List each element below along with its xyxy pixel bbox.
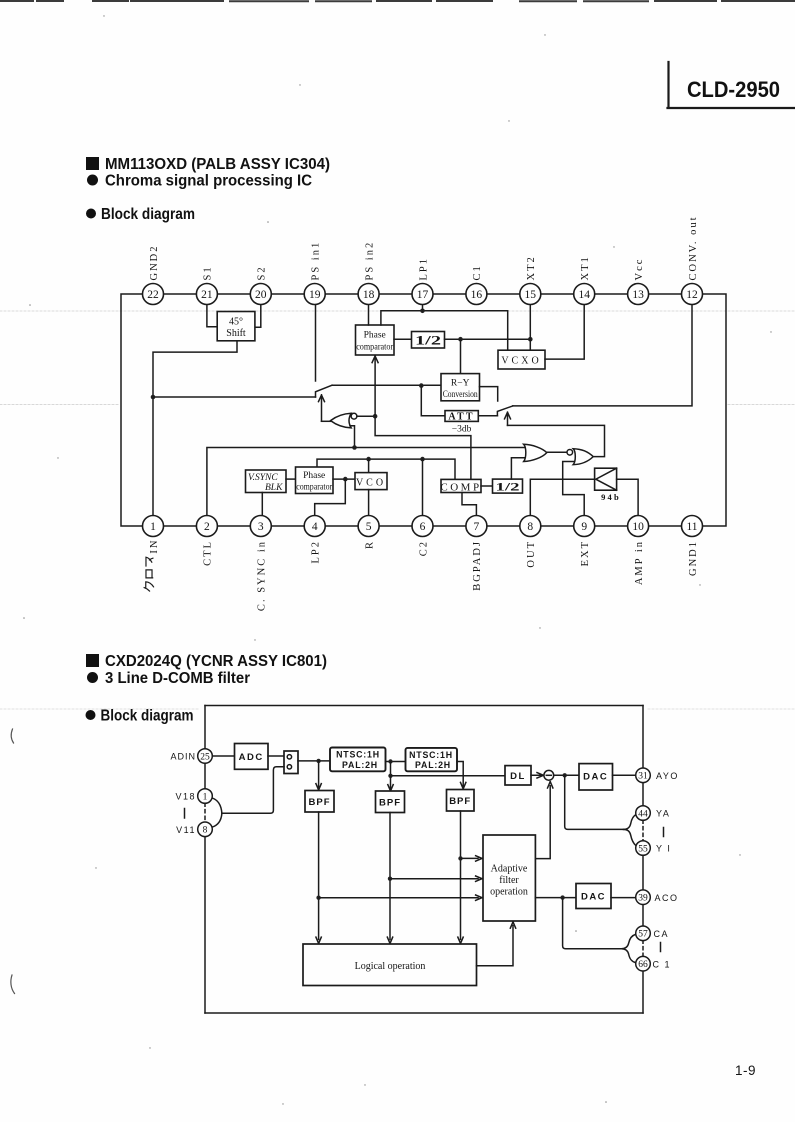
wire V-input to selector [222,767,284,814]
IC801 outline top [205,705,643,707]
pin 6 (C2) [412,516,433,557]
brace hook to pin57 [622,934,636,948]
svg-text:LP2: LP2 [311,540,322,564]
wire K1 arrow to BPF1 [316,761,321,790]
node K4 [563,773,567,777]
left margin paren mark 1 [11,729,13,743]
header round bullet block diagram 2 [86,710,96,720]
wire ATT to SW2 pole [478,415,497,417]
wire K3 arrow to BPF2 [388,776,393,791]
node K6 [388,877,392,881]
svg-text:GND1: GND1 [688,540,699,576]
pin 14 (XT1) [574,255,595,304]
svg-text:CONV. out: CONV. out [688,215,699,280]
wire NTSC2 down to BPF3 [457,762,466,789]
CTL rail pin2 to gate G2 [207,448,525,516]
svg-text:filter: filter [499,875,519,886]
svg-text:comparator: comparator [296,482,332,492]
NOR-input gate G3 [567,449,593,465]
svg-text:1/2: 1/2 [496,482,520,494]
svg-text:Logical operation: Logical operation [355,961,426,972]
svg-text:3 Line D-COMB filter: 3 Line D-COMB filter [105,670,250,687]
wire G1 top input to phase-det riser [357,415,375,417]
svg-text:XT2: XT2 [526,255,537,280]
svg-text:R: R [364,540,375,549]
node J9 pin6 tap [420,457,425,462]
rail VCO row [317,459,455,479]
svg-text:PS in1: PS in1 [311,241,322,281]
pin 4 (LP2) [304,516,325,564]
logical operation box [303,944,477,986]
IC801 outline bottom [205,1012,643,1014]
pin 9 (EXT) [574,516,595,567]
arrow SW2 control [505,412,511,425]
svg-text:Phase: Phase [364,331,386,341]
svg-text:PAL:2H: PAL:2H [342,760,378,770]
header square bullet CXD2024Q [86,654,99,667]
svg-text:operation: operation [490,887,528,898]
svg-text:AMP in: AMP in [634,540,645,585]
svg-text:C. SYNC in: C. SYNC in [257,540,268,611]
svg-text:V18: V18 [175,792,196,802]
wire COMP to half2 [481,485,493,487]
svg-text:ADIN: ADIN [170,752,196,762]
svg-text:5: 5 [366,521,372,533]
svg-text:14: 14 [578,289,590,301]
wire pin25 to ADC [212,755,234,757]
svg-text:YA: YA [656,809,670,819]
svg-text:CLD-2950: CLD-2950 [687,77,780,102]
pin 8 (OUT) [520,516,541,568]
phase comparator 2 box [296,467,334,494]
node J3 on phase-det riser [373,414,378,419]
svg-text:DL: DL [510,771,526,782]
wire pin15 to VCXO [529,305,531,351]
wire K8 to C-output brace [563,898,622,949]
wire K6 arrow to adaptive [390,876,482,881]
svg-text:8: 8 [203,826,208,836]
wire K7 arrow to adaptive [461,856,483,861]
wire pin8 hook [212,813,222,827]
phase comparator 1 box [356,325,395,355]
svg-text:CXD2024Q (YCNR ASSY IC801): CXD2024Q (YCNR ASSY IC801) [105,653,327,670]
svg-text:45°: 45° [229,317,243,328]
svg-text:V.SYNC: V.SYNC [248,473,278,483]
pin 16 (C1) [466,264,487,304]
wire node J1 to switch SW1 pole [153,396,316,398]
svg-text:6: 6 [420,521,426,533]
svg-text:Vcc: Vcc [634,258,645,281]
node J7 pin15 junction [528,337,533,342]
wire K4 to Y-input brace [565,775,624,829]
svg-text:C 1: C 1 [653,959,672,969]
wire SW2 to pin12 [513,305,692,406]
svg-text:OUT: OUT [526,540,537,568]
wire BPF3 down to logical [458,811,463,944]
pin 15 (XT2) [520,255,541,304]
switch SW2 [497,406,512,416]
pin 39 (ACO) [636,890,679,905]
wire subtractor to DAC1 [554,774,579,776]
svg-text:VCXO: VCXO [501,356,541,367]
header round bullet: block diagram 1 [86,209,96,219]
node K5 [316,896,320,900]
pin 11 (GND1) [682,516,703,577]
subtractor circle [544,770,554,780]
node J1 on pin1 riser [151,395,156,400]
ATT box [445,411,478,423]
wire NTSC1 to NTSC2 [386,761,406,763]
IC304 outline [121,294,726,526]
pin 3 (C. SYNC in) [250,516,271,612]
wire BPF2 down to logical [387,813,392,944]
pin 18 (PS in2) [358,241,379,305]
svg-text:CTL: CTL [203,540,214,566]
node K8 [560,895,564,899]
svg-text:25: 25 [200,752,210,762]
wire J6 to R-Y top [460,339,462,373]
svg-text:−3db: −3db [452,425,472,435]
DAC1 box [579,764,613,790]
wire DAC2 to pin39 [611,897,636,899]
wire DL arrow to subtractor [531,773,543,778]
VCO box [355,473,387,490]
svg-text:55: 55 [638,844,648,854]
wire pin1 hook [212,798,222,814]
svg-text:S1: S1 [203,265,214,280]
wire limiter to pin10 [617,479,639,515]
svg-text:10: 10 [632,521,644,533]
ADC box [235,744,269,770]
pin 2 (CTL) [196,516,217,566]
svg-text:BGPADJ: BGPADJ [472,540,483,591]
node K1 BPF1 tap [316,759,320,763]
wire pin9 to G3 lower input [563,462,585,516]
svg-text:7: 7 [474,521,480,533]
svg-text:AYO: AYO [656,771,679,781]
arrow SW1 control [319,395,325,421]
wire DAC1 to pin31 [613,774,636,776]
svg-text:17: 17 [417,289,429,301]
svg-text:Adaptive: Adaptive [491,864,528,875]
wire half2 top to gate G2 lower input [511,458,524,479]
input selector box [284,751,298,774]
svg-text:Chroma signal processing IC: Chroma signal processing IC [105,173,312,190]
svg-text:19: 19 [309,289,321,301]
pin 1 katakana kuroma label [144,557,153,591]
V.SYNC BLK box [246,470,287,493]
pin 8 (V11) [176,822,212,837]
wire adaptive to subtractor arrow [535,782,553,859]
svg-text:Y I: Y I [656,844,671,854]
node J8 VCO tap [366,457,371,462]
svg-text:57: 57 [638,930,648,940]
IC801 outline left [204,706,206,1014]
arrow into phase comparator 1 [372,356,471,479]
DL box [505,766,531,785]
svg-text:18: 18 [363,289,375,301]
node K7 [458,856,462,860]
NTSC delay 2 box [406,748,458,771]
pin 20 (S2) [250,265,271,304]
svg-text:comparator: comparator [356,342,393,352]
svg-text:11: 11 [686,521,697,533]
brace hook to pin44 [624,814,637,829]
pin 17 (LP1) [412,257,433,305]
pin 1 (V18) [175,789,212,804]
wire K5 arrow to adaptive [319,895,482,900]
svg-text:4: 4 [312,521,318,533]
node K2 [388,759,392,763]
wire J9 to pin6 [422,459,424,515]
svg-text:GND2: GND2 [149,245,160,281]
switch SW1 [316,385,333,397]
svg-text:DAC: DAC [583,772,608,783]
wire ADC to input selector [268,755,284,757]
svg-text:BLK: BLK [265,483,283,493]
svg-text:NTSC:1H: NTSC:1H [336,750,380,760]
diagram 1 pin circles [143,215,703,611]
wire pin18 to phase comparator 1 [368,305,370,326]
svg-text:31: 31 [638,772,648,782]
svg-text:Block diagram: Block diagram [101,206,195,223]
svg-text:R−Y: R−Y [451,379,470,389]
separator bar V1x [184,809,186,819]
wire pin19 stub to switch SW1 [315,305,317,382]
header round bullet 3line [87,672,98,683]
svg-text:12: 12 [686,289,698,301]
wire K2 down to rail [390,762,392,776]
wire pin1 to 45-shift riser [153,342,237,516]
brace hook to pin66 [622,949,636,963]
svg-text:NTSC:1H: NTSC:1H [409,750,453,760]
separator bar Y [663,828,665,837]
wire pin20 to 45-shift right [255,305,261,328]
VCXO box [498,350,545,369]
node J10 pin4 tap [343,477,348,482]
svg-text:ATT: ATT [448,412,474,423]
wire G2 out to G3 [547,451,568,453]
svg-text:8: 8 [527,521,533,533]
svg-text:21: 21 [201,289,213,301]
svg-text:COMP: COMP [440,481,481,493]
svg-text:1/2: 1/2 [415,334,441,348]
svg-text:44: 44 [638,809,648,819]
brace hook to pin55 [624,829,637,846]
pin 7 (BGPADJ) [466,516,487,591]
svg-text:20: 20 [255,289,267,301]
diagram 2 drawing [205,706,643,1014]
pin 44 (YA) [636,806,671,821]
svg-text:EXT: EXT [580,540,591,566]
wire pin8 to limiter [530,479,594,515]
divider 1/2 box b [493,479,523,493]
node J6 R-Y drop [458,337,463,342]
wire phase2 to VCO [333,478,355,480]
svg-text:1: 1 [150,521,156,533]
pin 13 (Vcc) [628,258,649,305]
svg-text:1: 1 [203,792,208,802]
svg-text:C1: C1 [472,264,483,280]
svg-text:13: 13 [632,289,644,301]
BPF3 box [447,790,475,812]
pin 12 (CONV. out) [682,215,703,304]
svg-text:22: 22 [147,289,159,301]
svg-text:9: 9 [581,521,587,533]
svg-text:IN: IN [149,539,160,554]
pin 21 (S1) [196,265,217,304]
wire adaptive to DAC2 [535,897,576,899]
wire pin21 to 45-shift left [207,305,217,327]
svg-text:MM113OXD (PALB ASSY IC304): MM113OXD (PALB ASSY IC304) [105,156,330,173]
NOR gate G1 (points left) [331,413,357,428]
wire logical to adaptive arrow [477,922,516,966]
svg-text:Conversion: Conversion [443,389,478,399]
header square bullet: MM1130XD [86,157,99,170]
wire selector to NTSC1 [298,760,330,762]
IC801 right dashed pin57-pin66 [642,940,644,957]
wire J8 to VCO top [368,459,370,473]
wire phase1 to half1 [394,338,412,340]
svg-text:Shift: Shift [226,328,246,339]
svg-text:C2: C2 [418,540,429,556]
left margin paren mark 2 [11,975,15,994]
svg-text:15: 15 [525,289,537,301]
wire BPF1 down to logical [316,812,321,944]
svg-text:16: 16 [471,289,483,301]
svg-text:2: 2 [204,521,210,533]
NTSC delay 1 box [330,748,386,772]
svg-text:XT1: XT1 [580,255,591,280]
svg-text:CA: CA [654,929,670,939]
svg-text:BPF: BPF [379,798,401,809]
BPF2 box [376,791,405,813]
svg-text:PAL:2H: PAL:2H [415,760,451,770]
node J4 on CTL rail [352,445,357,450]
pin 1 (kuroma IN) [143,516,164,537]
diagram 2 pins [170,749,678,971]
IC801 outline right [642,706,644,1014]
svg-text:66: 66 [638,960,648,970]
pin 57 (CA) [636,926,669,941]
pin 25 (ADIN) [170,749,212,764]
wire VCO to pin5 [368,490,370,516]
svg-text:DAC: DAC [581,892,606,903]
divider 1/2 box a [412,332,445,349]
wire half1 output [445,338,531,340]
node J2 ATT tap [419,383,424,388]
wire phase1 top feed rail to VCXO [381,311,508,350]
pin 66 (C1) [636,956,671,971]
wire pin17 drop [422,305,424,311]
wire vsync to phase2 [286,478,296,480]
separator bar C [660,943,662,952]
svg-text:3: 3 [258,521,264,533]
wire G1 bottom input to CTL rail [350,426,355,448]
header round bullet: chroma [87,175,98,186]
pin 10 (AMP in) [628,516,649,586]
wire COMP to pin7 [462,493,476,516]
IC801 left dashed segment pin1-pin8 [204,803,206,822]
svg-text:94b: 94b [601,492,621,502]
pin 19 (PS in1) [304,241,325,305]
wire pin4 elbow to J10 [315,479,346,515]
OR gate G2 [524,444,547,461]
svg-text:S2: S2 [257,265,268,280]
wire vsync to pin3 [261,493,263,516]
wire arrow2 to gate G3 output [508,425,605,456]
delay rail to DL [391,775,506,777]
IC801 right dashed pin44-pin55 [642,820,644,841]
wire SW1 to R-Y conversion [332,384,441,386]
svg-text:1-9: 1-9 [735,1063,756,1078]
svg-text:BPF: BPF [309,797,331,808]
pin 22 (GND2) [143,245,164,305]
node J5 pin17 tap [420,309,425,314]
node K3 on delay rail [388,774,392,778]
pin 55 (YI) [636,841,672,856]
limiter 94b box [595,468,621,502]
svg-text:39: 39 [638,894,648,904]
SCAN-ARTIFACTS [0,1,795,709]
adaptive filter box [483,835,535,921]
COMP box [440,479,481,493]
svg-text:VCO: VCO [356,478,386,489]
svg-text:ACO: ACO [655,893,679,903]
DAC2 box [576,884,611,909]
45-degree shift box [217,312,255,341]
svg-text:BPF: BPF [449,796,471,807]
R-Y conversion box [441,374,480,401]
pin 5 (R) [358,516,379,550]
CLD-2950 title box rule [668,62,795,108]
svg-text:V11: V11 [176,825,196,835]
wire R-Y out to SW2 contact [480,387,498,401]
svg-text:Block diagram: Block diagram [101,708,194,725]
svg-text:Phase: Phase [303,471,325,481]
BPF1 box [305,791,334,813]
svg-text:PS in2: PS in2 [364,241,375,281]
wire node J2 to ATT left [421,386,445,416]
wire VCXO to pin14 [545,305,584,360]
svg-text:LP1: LP1 [418,257,429,281]
svg-text:ADC: ADC [239,752,264,763]
pin 31 (AYO) [636,768,679,783]
wire arrow1 to gate G1 output [322,420,331,422]
